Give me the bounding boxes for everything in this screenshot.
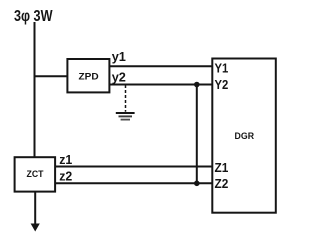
wire: branch to ZPD: [35, 75, 68, 77]
node: junction dot on z2: [194, 181, 200, 187]
svg-text:Z1: Z1: [215, 160, 229, 175]
relay DGR (directional ground relay): [212, 59, 275, 213]
svg-text:z1: z1: [59, 152, 72, 167]
svg-text:3φ 3W: 3φ 3W: [14, 8, 53, 25]
wire z1: [55, 166, 212, 168]
svg-text:Y2: Y2: [215, 77, 229, 92]
svg-text:ZCT: ZCT: [27, 169, 44, 179]
wire y2: [110, 84, 212, 86]
wire z2: [55, 182, 212, 184]
svg-text:ZPD: ZPD: [79, 72, 100, 82]
wire: main bus vertical: [34, 22, 36, 157]
transformer ZPD (zero-phase potential device): [67, 59, 109, 92]
svg-text:y2: y2: [112, 70, 126, 85]
wire y1: [110, 65, 212, 67]
arrow: bus continues down: [31, 224, 40, 232]
svg-text:z2: z2: [59, 169, 72, 184]
node: junction dot on y2: [194, 82, 200, 88]
ground (earth symbol): [116, 113, 135, 120]
wire: bus exit below ZCT: [34, 192, 36, 225]
svg-text:Z2: Z2: [215, 176, 229, 191]
wire: y2-to-z2 tie (vertical): [196, 85, 198, 184]
transformer ZCT (zero-phase current transformer): [15, 157, 56, 191]
wire: dashed earth connection from y2: [125, 85, 127, 112]
svg-text:y1: y1: [112, 49, 126, 64]
svg-text:DGR: DGR: [235, 131, 255, 141]
svg-text:Y1: Y1: [215, 61, 229, 76]
